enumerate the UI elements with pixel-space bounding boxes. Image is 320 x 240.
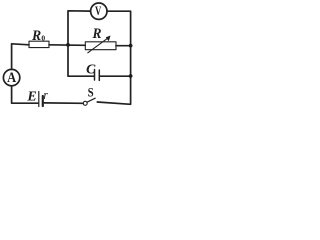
junction node C dot xyxy=(129,74,133,78)
rheostat arrowhead xyxy=(106,36,111,42)
svg-text:S: S xyxy=(88,85,94,100)
battery E long plate xyxy=(38,92,40,107)
wire rheostat to right vertical xyxy=(116,45,131,47)
svg-text:E: E xyxy=(26,89,36,104)
switch S pivot xyxy=(83,101,87,105)
wire capacitor to right vertical xyxy=(100,75,131,77)
svg-text:R: R xyxy=(92,26,102,42)
resistor R0 xyxy=(29,41,49,47)
battery E short plate xyxy=(42,96,44,106)
wire right vertical (node B to bottom-right corner) xyxy=(97,46,130,105)
switch S lever xyxy=(87,98,95,102)
rheostat arrow xyxy=(88,37,109,53)
wire battery to switch xyxy=(44,102,83,104)
svg-text:r: r xyxy=(43,87,48,102)
wire left vertical bottom (ammeter to bottom-left corner) xyxy=(12,86,39,103)
junction node A dot xyxy=(66,43,70,47)
wire voltmeter to top-right corner xyxy=(107,11,131,45)
svg-text:C: C xyxy=(86,63,96,78)
wire R0 to junction node A xyxy=(49,44,85,47)
capacitor C plate 1 xyxy=(94,70,96,81)
svg-text:R: R xyxy=(31,28,41,44)
voltmeter V1 xyxy=(91,3,107,19)
svg-text:V: V xyxy=(95,3,102,18)
rheostat R (slide resistor box) xyxy=(85,42,116,50)
junction node B dot xyxy=(129,44,133,48)
svg-text:A: A xyxy=(7,70,16,86)
wire left vertical top (corner to ammeter) xyxy=(12,44,29,70)
ammeter A1 xyxy=(3,69,19,85)
wire junction vertical (voltmeter row to capacitor row) xyxy=(68,11,94,76)
capacitor C plate 2 xyxy=(98,70,100,80)
svg-text:0: 0 xyxy=(41,34,45,43)
